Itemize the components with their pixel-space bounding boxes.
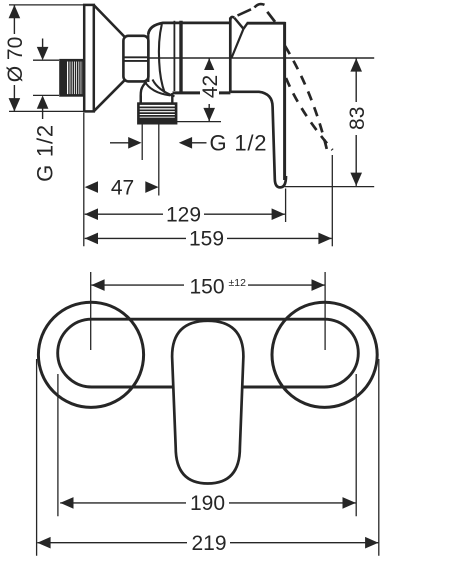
dim G1/2 thread right tail [191,142,207,144]
hex nut flat line upper [125,56,149,58]
valve body neck fillet arc 1 [144,81,171,96]
handle tip [230,92,286,188]
dashed handle raised dash 1 [238,9,252,15]
outlet thread hatch [140,106,176,108]
valve body bottom-left flare [141,82,147,104]
dim 219 arrow right [365,537,378,549]
dim 83 arrow up [350,58,362,71]
dim 159 label [186,227,227,249]
dim 42 line [208,58,210,121]
handle back hook [230,17,234,20]
svg-text:150: 150 [189,275,224,298]
svg-text:G 1/2: G 1/2 [210,131,268,156]
valve body top curve [148,23,230,34]
dim 42 arrow up [203,58,215,71]
handle back edge [229,18,232,92]
dim Ø70 label [7,34,23,85]
dim 190 line [60,502,356,504]
dim 129 line [85,213,285,215]
escutcheon cone bottom edge [94,80,125,111]
wall nipple thread solid left band [61,60,68,95]
dim 190 extension right [355,374,357,516]
dim 150 extension right [324,272,326,350]
outlet neck left [140,96,142,105]
dim 190 arrow right [343,497,356,509]
svg-text:129: 129 [166,203,201,226]
outlet neck right [171,93,173,104]
valve body seam [147,34,149,83]
body capsule [58,319,359,387]
dim 150 extension left [90,272,92,350]
hex nut flat line lower [125,60,149,62]
dim G1/2 nipple extension line top [33,59,59,61]
valve body neck fillet arc 2 [153,80,175,97]
handle front edge [283,22,286,180]
dim 219 extension left [36,359,38,556]
dashed handle open line 1 [285,46,327,150]
dim 150 arrow left [91,279,104,291]
wall nipple thread body [61,60,85,95]
dim G1/2 thread left tail [110,142,129,144]
handle top edge [247,22,286,25]
dim 42 arrow down [203,108,215,121]
dim 159 arrow left [85,233,98,245]
svg-text:47: 47 [111,176,134,199]
dim 159 line [85,237,332,239]
valve body inner arc [159,24,165,93]
svg-text:±12: ±12 [229,277,247,289]
svg-text:159: 159 [189,228,224,251]
dim G1/2 nipple extension line bottom [33,94,59,96]
extension line x83.8 (left, 47/129/159) [83,113,85,246]
svg-text:83: 83 [346,107,369,130]
dim Ø70 arrow up [9,5,21,18]
dim 47 arrow left [85,181,98,193]
escutcheon cone top edge [94,5,125,37]
dashed handle raised dash 2 apex [255,4,265,7]
dim 83 label [347,102,366,135]
wall nipple thread hatch [68,61,70,95]
handle capsule [172,321,243,484]
left escutcheon circle [38,302,143,407]
dim 190 arrow left [60,497,73,509]
dim G1/2 nipple arrow up [37,95,49,108]
svg-text:Ø 70: Ø 70 [4,37,27,83]
dim 129 arrow right [272,208,285,220]
dim 129 label [163,203,204,225]
dim Ø70 arrow down [9,98,21,111]
thin extension line y58 (42-top / 83-top) [148,57,374,59]
cartridge front line thick [179,21,182,93]
svg-text:219: 219 [191,532,226,555]
valve body bottom edge [173,91,231,94]
dim G1/2 thread arrow right [128,137,141,149]
handle fill background [230,22,286,187]
dim Ø70 extension line top [9,4,84,6]
handle rear steep line [232,29,244,58]
extension line from dashed tip [331,155,333,246]
dim 83 arrow down [350,173,362,186]
dim G1/2 nipple arrow down [37,47,49,60]
dim 219 extension right [378,359,380,556]
dim 42 label [200,70,219,104]
dim 150 arrow right [312,279,325,291]
dim Ø70 dimension line [13,5,15,112]
dim Ø70 extension line bottom [9,110,84,112]
dim G1/2 thread arrow left [179,137,192,149]
cartridge front line thin [173,21,175,91]
dim 159 arrow right [318,233,331,245]
extension line y121.6 (42-bottom) [177,121,221,123]
dim 190 extension left [57,374,59,516]
extension line y186.6 (83-bottom) [285,186,375,188]
extension line x142 (G1/2 thread) [141,125,143,161]
dim 150 label [184,274,248,295]
dim G1/2 nipple tail top [42,39,44,49]
dim G1/2 nipple tail bottom [42,108,44,120]
dim 150 line [91,284,324,286]
dashed handle open line 2 [286,78,333,150]
outlet thread bottom band [138,118,177,124]
svg-text:42: 42 [199,75,222,98]
dashed handle raised dash 3 [267,12,275,22]
extension line x285.6 (129 right) [285,189,287,223]
dim 47 label [108,176,137,197]
dim 47 arrow right [145,181,158,193]
dim 190 label [186,492,229,514]
handle top-rear slant [234,18,243,29]
outlet thread block [138,104,176,124]
handle front slant [244,23,248,29]
hex connection nut [123,36,148,82]
wall flange escutcheon [84,5,94,112]
dim 219 label [187,532,230,554]
dim 83 line [355,58,357,186]
right escutcheon circle [272,302,377,407]
extension line x158.8 (47 right) [158,125,160,196]
dim 219 line [37,542,378,544]
dim 219 arrow left [37,537,50,549]
svg-text:190: 190 [190,492,225,515]
dim 129 arrow left [85,208,98,220]
svg-text:G 1/2: G 1/2 [33,124,58,182]
